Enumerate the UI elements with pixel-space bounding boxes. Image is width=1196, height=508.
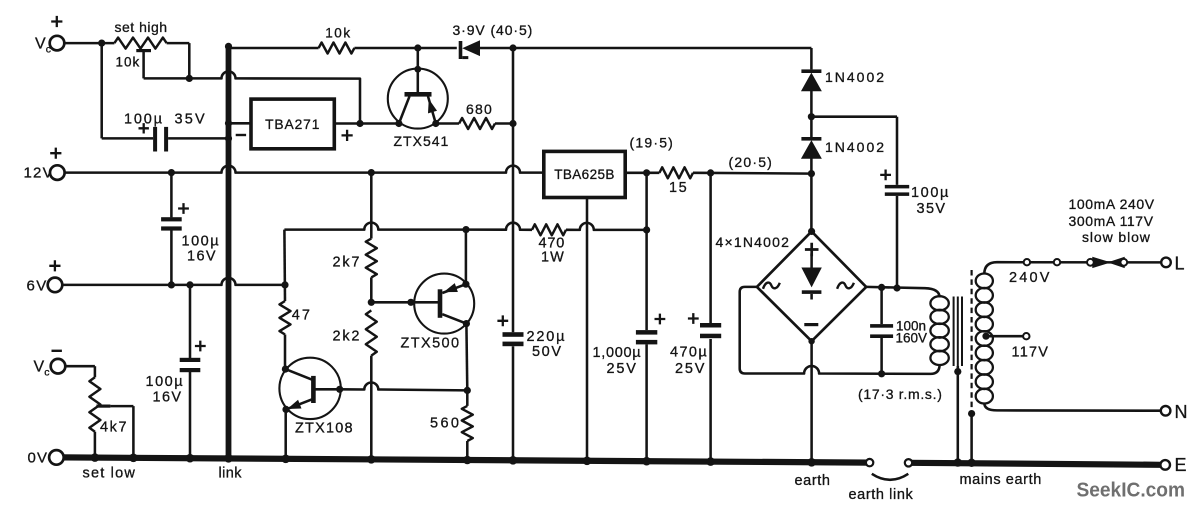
- svg-text:(20·5): (20·5): [729, 154, 774, 170]
- svg-text:N: N: [1175, 402, 1188, 422]
- svg-text:E: E: [1175, 455, 1187, 475]
- svg-text:c: c: [46, 44, 51, 56]
- svg-text:2k2: 2k2: [333, 329, 362, 345]
- svg-text:35V: 35V: [917, 201, 947, 217]
- svg-text:(19·5): (19·5): [630, 135, 675, 151]
- svg-text:set low: set low: [83, 466, 137, 482]
- svg-text:3·9V (40·5): 3·9V (40·5): [453, 22, 534, 38]
- svg-text:4×1N4002: 4×1N4002: [716, 234, 791, 250]
- svg-text:16V: 16V: [187, 249, 217, 265]
- svg-text:ZTX541: ZTX541: [394, 133, 450, 149]
- svg-text:300mA 117V: 300mA 117V: [1069, 213, 1154, 229]
- svg-text:12V: 12V: [24, 165, 54, 182]
- svg-text:ZTX108: ZTX108: [295, 421, 354, 437]
- svg-text:35V: 35V: [175, 112, 207, 128]
- svg-text:4k7: 4k7: [100, 420, 128, 436]
- svg-text:0V: 0V: [28, 450, 49, 467]
- svg-text:100µ: 100µ: [182, 234, 221, 250]
- svg-text:c: c: [44, 367, 49, 379]
- svg-text:220µ: 220µ: [527, 329, 567, 345]
- svg-text:100µ: 100µ: [146, 374, 185, 390]
- svg-text:slow blow: slow blow: [1082, 229, 1151, 245]
- svg-text:TBA625B: TBA625B: [554, 167, 615, 182]
- svg-text:2k7: 2k7: [333, 255, 362, 271]
- svg-text:6V: 6V: [27, 278, 48, 295]
- svg-text:earth link: earth link: [849, 487, 914, 503]
- svg-text:680: 680: [466, 101, 493, 117]
- svg-text:L: L: [1175, 254, 1185, 274]
- svg-text:100mA 240V: 100mA 240V: [1069, 196, 1155, 212]
- svg-text:ZTX500: ZTX500: [401, 336, 461, 352]
- svg-text:25V: 25V: [675, 361, 706, 377]
- svg-text:V: V: [35, 36, 46, 53]
- svg-text:(17·3 r.m.s.): (17·3 r.m.s.): [858, 386, 943, 402]
- svg-text:earth: earth: [795, 473, 831, 489]
- svg-text:1,000µ: 1,000µ: [593, 345, 642, 361]
- svg-text:V: V: [34, 359, 45, 376]
- svg-text:TBA271: TBA271: [265, 117, 320, 132]
- svg-text:50V: 50V: [532, 344, 563, 360]
- svg-text:1W: 1W: [541, 250, 565, 266]
- svg-text:240V: 240V: [1009, 270, 1052, 286]
- svg-text:117V: 117V: [1012, 345, 1050, 361]
- svg-text:link: link: [219, 466, 243, 482]
- svg-text:10k: 10k: [325, 26, 352, 41]
- svg-text:100µ: 100µ: [911, 185, 950, 201]
- svg-text:mains earth: mains earth: [960, 472, 1042, 488]
- svg-text:100µ: 100µ: [124, 112, 164, 128]
- svg-text:470µ: 470µ: [670, 345, 708, 361]
- svg-text:set high: set high: [115, 19, 168, 35]
- svg-text:SeekIC.com: SeekIC.com: [1077, 480, 1186, 502]
- svg-text:1N4002: 1N4002: [825, 139, 886, 155]
- svg-text:160V: 160V: [896, 331, 928, 346]
- svg-text:25V: 25V: [607, 361, 638, 377]
- svg-text:47: 47: [292, 308, 312, 324]
- svg-text:10k: 10k: [116, 55, 141, 70]
- svg-text:1N4002: 1N4002: [825, 69, 886, 85]
- svg-text:15: 15: [669, 180, 688, 196]
- svg-text:16V: 16V: [153, 390, 183, 406]
- svg-text:560: 560: [430, 416, 461, 432]
